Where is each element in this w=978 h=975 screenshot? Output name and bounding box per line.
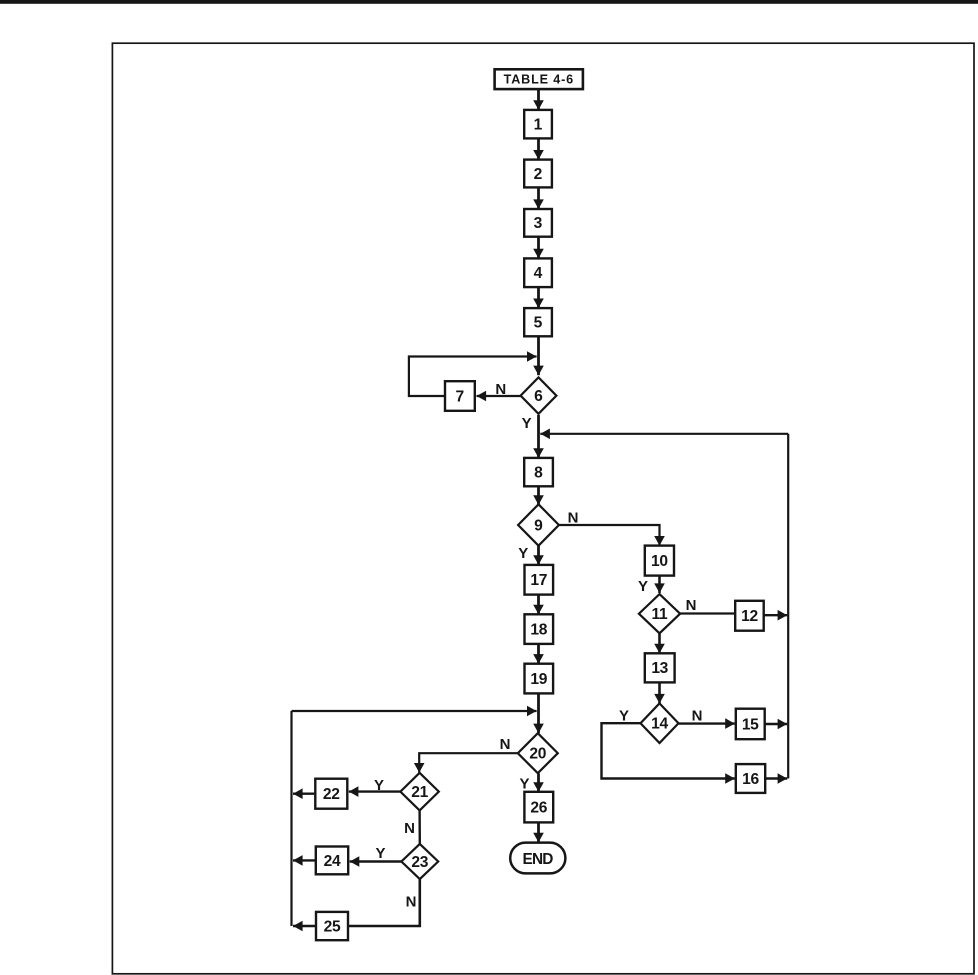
wire box 19 to decision 20	[533, 693, 544, 733]
wire decision 11 to box 13	[654, 633, 665, 653]
process box 1	[524, 110, 552, 138]
wire box 2 to box 3	[533, 187, 544, 209]
wire decision 21 N to decision 23	[418, 810, 421, 844]
left loop vertical line	[290, 711, 292, 926]
wire box 22 to left line	[293, 788, 315, 799]
decision diamond 21	[400, 773, 438, 811]
svg-text:13: 13	[651, 660, 668, 677]
wire decision 14 N to box 15	[679, 718, 735, 729]
process box 16	[736, 764, 765, 793]
svg-text:9: 9	[534, 517, 543, 534]
wire box 16 to feedback line	[765, 773, 787, 784]
process box 24	[316, 847, 348, 875]
decision diamond 20	[518, 733, 558, 773]
svg-text:26: 26	[530, 800, 547, 817]
process box 5	[524, 308, 552, 336]
decision diamond 14	[641, 703, 679, 743]
process box 22	[315, 779, 347, 809]
svg-text:21: 21	[411, 784, 428, 801]
process box 3	[524, 209, 552, 237]
svg-text:25: 25	[324, 918, 341, 935]
page top bar	[0, 0, 978, 4]
svg-text:24: 24	[324, 853, 341, 870]
wire box 25 to left line	[293, 921, 316, 932]
svg-text:17: 17	[530, 572, 547, 589]
svg-text:11: 11	[652, 606, 669, 623]
svg-text:15: 15	[742, 716, 759, 733]
svg-text:Y: Y	[519, 776, 529, 793]
svg-text:Y: Y	[518, 545, 528, 562]
svg-text:14: 14	[651, 716, 668, 733]
svg-text:Y: Y	[619, 708, 629, 725]
wire loop from box 7 back to main line	[409, 351, 537, 396]
svg-text:6: 6	[534, 388, 543, 405]
wire box 5 to decision 6	[533, 336, 544, 375]
process box 18	[525, 614, 554, 644]
wire decision 23 Y to box 24	[350, 856, 402, 867]
svg-text:N: N	[692, 708, 703, 725]
decision diamond 11	[639, 594, 680, 633]
wire box 17 to box 18	[533, 595, 544, 615]
process box 12	[735, 601, 764, 631]
svg-text:N: N	[500, 736, 511, 753]
wire box 18 to box 19	[533, 644, 544, 664]
wire box 12 to feedback line	[764, 610, 788, 621]
wire decision 23 N to box 25	[348, 879, 420, 926]
svg-text:22: 22	[323, 786, 340, 803]
svg-text:Y: Y	[522, 415, 532, 432]
svg-text:2: 2	[534, 166, 543, 183]
wire decision 20 N to decision 21	[414, 753, 518, 772]
wire decision 6 N to box 7	[477, 391, 521, 402]
svg-text:Y: Y	[638, 578, 648, 595]
svg-text:10: 10	[651, 553, 668, 570]
svg-text:4: 4	[534, 265, 543, 282]
terminator END	[510, 843, 565, 874]
wire decision 20 Y to box 26	[533, 773, 544, 792]
wire box 8 to decision 9	[533, 486, 544, 505]
wire box 26 to END	[533, 822, 544, 842]
process box 15	[736, 709, 765, 740]
svg-text:12: 12	[741, 608, 758, 625]
svg-text:8: 8	[534, 465, 543, 482]
svg-text:Y: Y	[375, 845, 385, 862]
decision diamond 6	[521, 377, 557, 413]
decision diamond 23	[401, 844, 438, 879]
svg-text:END: END	[523, 851, 554, 868]
wire decision 6 Y to box 8	[533, 415, 544, 458]
wire right feedback into main line	[540, 429, 788, 440]
process box 25	[316, 912, 348, 940]
svg-text:18: 18	[530, 622, 547, 639]
svg-text:5: 5	[534, 315, 543, 332]
wire decision 11 N to box 12	[680, 612, 735, 614]
wire title to box 1	[533, 89, 544, 110]
process box 2	[524, 160, 552, 188]
svg-text:N: N	[406, 894, 417, 911]
wire box 1 to box 2	[533, 138, 544, 159]
wire decision 9 Y to box 17	[533, 545, 544, 565]
decision diamond 9	[518, 504, 559, 545]
process box 13	[645, 653, 675, 682]
wire box 4 to box 5	[533, 287, 544, 308]
process box 8	[524, 458, 553, 486]
svg-text:3: 3	[534, 215, 543, 232]
process box 19	[525, 664, 554, 694]
svg-text:TABLE 4-6: TABLE 4-6	[504, 73, 574, 87]
wire decision 21 Y to box 22	[349, 786, 401, 797]
process box 4	[524, 258, 552, 287]
process box 10	[645, 546, 674, 576]
wire decision 9 N to box 10	[559, 525, 665, 546]
process box 7	[445, 381, 475, 411]
svg-text:19: 19	[530, 671, 547, 688]
feedback line right vertical	[787, 434, 789, 779]
wire box 13 to decision 14	[654, 682, 665, 703]
svg-text:16: 16	[742, 771, 759, 788]
svg-text:20: 20	[529, 746, 546, 763]
title box TABLE 4-6	[495, 69, 583, 89]
wire box 15 to feedback line	[765, 719, 788, 730]
process box 17	[525, 565, 554, 595]
svg-text:7: 7	[456, 388, 465, 405]
wire decision 14 Y to box 16	[602, 723, 735, 784]
svg-text:N: N	[568, 509, 579, 526]
svg-text:N: N	[686, 597, 697, 614]
wire box 3 to box 4	[533, 237, 544, 259]
svg-text:1: 1	[534, 117, 543, 134]
process box 26	[524, 792, 553, 823]
svg-text:N: N	[404, 820, 415, 837]
wire box 24 to left line	[293, 855, 316, 866]
wire box 10 to decision 11	[654, 576, 665, 593]
wire left loop into main line	[292, 706, 537, 717]
svg-text:23: 23	[411, 854, 428, 871]
